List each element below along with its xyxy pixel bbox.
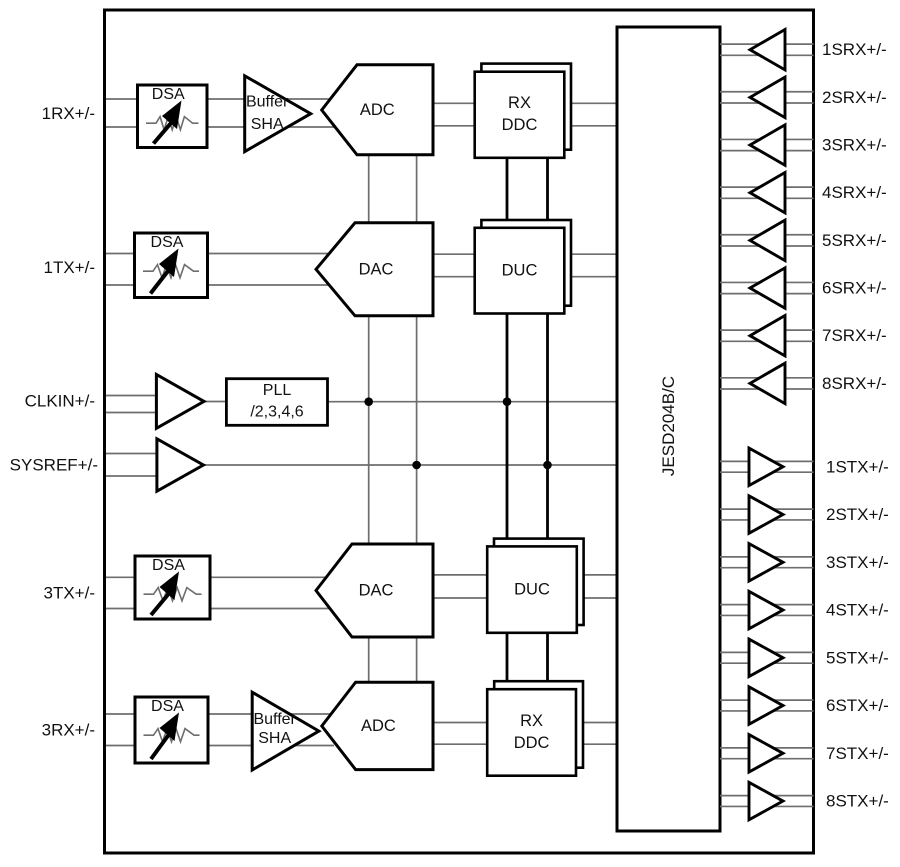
wire ADC to RX DDC pair (top) <box>433 103 476 126</box>
svg-text:/2,3,4,6: /2,3,4,6 <box>250 404 303 421</box>
svg-text:CLKIN+/-: CLKIN+/- <box>25 392 95 411</box>
DAC converter (3TX) <box>316 544 433 637</box>
svg-text:PLL: PLL <box>263 382 292 399</box>
RX DDC block (bottom) <box>487 681 583 776</box>
ADC converter (1RX) <box>322 65 433 155</box>
wire DUC to JESD pair (top) <box>570 254 618 277</box>
PLL divider block <box>226 379 327 426</box>
DSA block U5 (3RX) <box>135 697 208 763</box>
wire 6STX pair <box>720 700 814 711</box>
wire vertical data bus B <box>546 158 549 684</box>
wire DUC to JESD pair (bottom) <box>582 575 618 598</box>
wire 1STX pair <box>720 461 814 472</box>
wire CLKIN input pair <box>104 396 157 413</box>
chip boundary frame <box>105 10 814 853</box>
DSA block U3 (1TX) <box>135 233 208 298</box>
wire 1SRX pair <box>720 44 814 55</box>
wire 2STX pair <box>720 509 814 520</box>
svg-text:ADC: ADC <box>360 101 395 119</box>
svg-text:SHA: SHA <box>251 116 284 133</box>
svg-text:DAC: DAC <box>359 260 394 278</box>
svg-text:6STX+/-: 6STX+/- <box>826 696 889 715</box>
SERDES TX driver 7STX <box>749 735 783 772</box>
wire 8SRX pair <box>720 378 814 389</box>
wire 3SRX pair <box>720 139 814 150</box>
SERDES TX driver 4STX <box>749 591 783 628</box>
SERDES RX buffer 4SRX <box>750 173 785 213</box>
svg-text:RX: RX <box>508 94 531 112</box>
wire 3STX pair <box>720 557 814 568</box>
SERDES RX buffer 7SRX <box>750 316 785 356</box>
svg-text:6SRX+/-: 6SRX+/- <box>822 279 887 298</box>
wire ADC to RX DDC pair (bottom) <box>433 723 488 745</box>
DUC block (top) <box>475 220 571 314</box>
RX DDC block (top) <box>475 64 571 158</box>
SERDES TX driver 3STX <box>749 544 783 581</box>
svg-text:1TX+/-: 1TX+/- <box>44 258 96 277</box>
svg-text:DAC: DAC <box>359 582 394 600</box>
SERDES TX driver 2STX <box>749 496 783 533</box>
SERDES RX buffer 1SRX <box>750 30 785 70</box>
wire vertical clock line B <box>416 155 418 681</box>
wire clock buffer to PLL <box>203 401 227 403</box>
JESD204B/C interface block <box>617 27 720 831</box>
wire 1RX DSA to ADC pair <box>207 99 334 127</box>
svg-text:DSA: DSA <box>151 234 184 251</box>
wire SYSREF distribution <box>203 464 619 466</box>
svg-text:7STX+/-: 7STX+/- <box>826 744 889 763</box>
node SYSREF junction at bus B <box>543 461 552 470</box>
wire DAC to DUC pair (bottom) <box>433 575 488 598</box>
svg-text:2SRX+/-: 2SRX+/- <box>822 88 887 107</box>
wire 3RX DSA to ADC pair <box>207 714 334 746</box>
wire 3RX input pair <box>104 714 136 746</box>
SERDES RX buffer 6SRX <box>750 268 785 308</box>
wire 1RX input pair <box>104 99 138 127</box>
svg-text:3RX+/-: 3RX+/- <box>42 721 95 740</box>
clock input buffer <box>156 375 204 429</box>
svg-text:2STX+/-: 2STX+/- <box>826 505 889 524</box>
wire RX DDC to JESD pair (top) <box>570 103 618 126</box>
wire 7STX pair <box>720 748 814 759</box>
DSA block U4 (3TX) <box>135 556 210 619</box>
svg-text:7SRX+/-: 7SRX+/- <box>822 326 887 345</box>
node clock junction at line A <box>364 397 373 406</box>
wire 8STX pair <box>720 796 814 807</box>
buffer/SHA amplifier U2 (1RX) <box>245 76 311 152</box>
SERDES TX driver 6STX <box>749 687 783 724</box>
DAC converter (1TX) <box>316 223 433 316</box>
SERDES TX driver 8STX <box>749 782 783 819</box>
svg-text:DUC: DUC <box>514 581 550 599</box>
svg-text:Buffer: Buffer <box>253 711 296 728</box>
SERDES RX buffer 2SRX <box>750 77 785 117</box>
DUC block (bottom) <box>487 539 583 633</box>
svg-text:DUC: DUC <box>502 262 538 280</box>
ADC converter (3RX) <box>322 682 433 769</box>
svg-text:3SRX+/-: 3SRX+/- <box>822 136 887 155</box>
SERDES RX buffer 5SRX <box>750 220 785 260</box>
svg-text:1STX+/-: 1STX+/- <box>826 457 889 476</box>
svg-text:Buffer: Buffer <box>246 94 289 111</box>
DSA block U1 (1RX) <box>138 85 208 148</box>
wire PLL output clock distribution <box>328 401 619 403</box>
svg-text:1SRX+/-: 1SRX+/- <box>822 40 887 59</box>
wire 1TX input pair <box>104 254 136 286</box>
wire 4SRX pair <box>720 187 814 198</box>
wire 7SRX pair <box>720 330 814 341</box>
wire 5STX pair <box>720 652 814 663</box>
svg-text:JESD204B/C: JESD204B/C <box>659 376 678 476</box>
wire RX DDC to JESD pair (bottom) <box>582 723 618 745</box>
svg-text:8STX+/-: 8STX+/- <box>826 792 889 811</box>
wire 5SRX pair <box>720 235 814 246</box>
wire vertical data bus A <box>506 158 509 684</box>
svg-text:DSA: DSA <box>152 86 185 103</box>
svg-text:DDC: DDC <box>514 734 550 752</box>
svg-text:SHA: SHA <box>258 730 291 747</box>
SERDES TX driver 5STX <box>749 639 783 676</box>
svg-text:RX: RX <box>520 712 543 730</box>
svg-text:SYSREF+/-: SYSREF+/- <box>10 455 98 474</box>
SERDES RX buffer 3SRX <box>750 125 785 165</box>
wire 1TX DSA to DAC pair <box>206 254 334 286</box>
svg-text:DDC: DDC <box>502 116 538 134</box>
svg-text:5STX+/-: 5STX+/- <box>826 648 889 667</box>
node clock junction at bus A <box>503 397 512 406</box>
wire 3TX input pair <box>104 577 136 608</box>
svg-text:8SRX+/-: 8SRX+/- <box>822 374 887 393</box>
node SYSREF junction at line B <box>412 461 421 470</box>
svg-text:4STX+/-: 4STX+/- <box>826 601 889 620</box>
SERDES TX driver 1STX <box>749 448 783 485</box>
svg-text:3TX+/-: 3TX+/- <box>44 584 96 603</box>
svg-text:ADC: ADC <box>361 717 396 735</box>
svg-text:5SRX+/-: 5SRX+/- <box>822 231 887 250</box>
wire 2SRX pair <box>720 92 814 103</box>
wire DAC to DUC pair (top) <box>433 254 476 277</box>
svg-text:4SRX+/-: 4SRX+/- <box>822 183 887 202</box>
wire vertical clock line A <box>368 155 370 681</box>
svg-text:DSA: DSA <box>151 698 184 715</box>
svg-text:1RX+/-: 1RX+/- <box>42 104 95 123</box>
wire 3TX DSA to DAC pair <box>209 577 334 608</box>
svg-text:DSA: DSA <box>152 557 185 574</box>
wire 4STX pair <box>720 605 814 616</box>
SYSREF input buffer <box>157 439 204 491</box>
svg-text:3STX+/-: 3STX+/- <box>826 553 889 572</box>
SERDES RX buffer 8SRX <box>750 363 785 403</box>
buffer/SHA amplifier U6 (3RX) <box>252 692 319 770</box>
wire 6SRX pair <box>720 282 814 293</box>
wire SYSREF input pair <box>104 454 158 477</box>
